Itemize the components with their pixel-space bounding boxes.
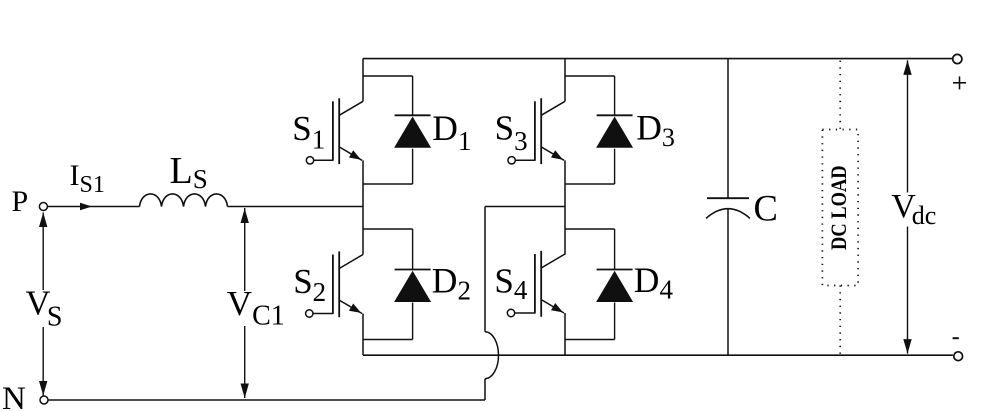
wire leg1 emitter to bottom rail <box>362 314 364 356</box>
voltage arrow V_S <box>42 213 44 396</box>
label + <box>953 82 966 84</box>
svg-text:C: C <box>754 188 778 229</box>
label V_S <box>25 290 62 327</box>
wire leg2 midpoint section <box>564 160 566 254</box>
node N terminal <box>40 396 48 404</box>
label V_dc <box>890 193 938 227</box>
terminal - (negative output) <box>954 352 963 361</box>
wire bottom negative rail <box>363 354 953 356</box>
transistor S2 (IGBT) <box>306 251 363 317</box>
voltage arrow V_dc <box>907 60 909 353</box>
diode D2 <box>394 270 431 303</box>
label V_C1 <box>226 291 279 326</box>
wire leg2 midpoint to crossover <box>485 206 565 208</box>
wire leg1 D1 cathode branch <box>363 75 413 77</box>
voltage arrow V_C1 <box>244 208 246 398</box>
current arrow I_S1 <box>80 203 92 210</box>
diode D3 <box>596 115 633 148</box>
label - <box>953 337 959 339</box>
wire leg2 D4 cathode branch <box>565 228 615 230</box>
wire dotted lead top of DC load <box>839 61 841 130</box>
terminal + (positive output) <box>953 54 962 63</box>
wire leg1 D2 cathode branch <box>363 228 413 230</box>
diode D1 <box>394 115 431 148</box>
DC load box (dotted) <box>822 130 858 286</box>
svg-text:N: N <box>2 381 26 411</box>
wire crossover drop with hop over negative rail <box>484 207 486 332</box>
transistor S4 (IGBT) <box>507 251 565 317</box>
wire D2 anode branch <box>412 303 414 340</box>
wire leg2 D3 cathode branch <box>565 75 615 77</box>
wire leg1 collector drop from top rail <box>362 59 364 102</box>
wire P to inductor <box>47 206 139 208</box>
wire D1 anode branch <box>412 149 414 184</box>
diode D4 <box>596 270 633 303</box>
wire leg2 collector drop from top rail <box>564 59 566 102</box>
wire D3 anode branch <box>614 149 616 184</box>
wire leg2 emitter to bottom rail <box>564 313 566 355</box>
wire N terminal to leg 2 midpoint (bottom) <box>48 399 485 401</box>
wire D4 anode branch <box>614 303 616 340</box>
svg-text:DC LOAD: DC LOAD <box>827 165 851 250</box>
inductor L_S <box>140 194 228 207</box>
svg-text:P: P <box>12 185 29 218</box>
capacitor C <box>706 59 750 356</box>
wire dotted lead bottom of DC load <box>839 286 841 355</box>
wire inductor to leg 1 midpoint <box>228 206 364 208</box>
transistor S3 (IGBT) <box>508 98 565 164</box>
node P terminal <box>39 203 47 211</box>
wire leg1 midpoint section <box>362 160 364 254</box>
transistor S1 (IGBT) <box>306 98 363 164</box>
wire top positive rail <box>363 58 953 60</box>
